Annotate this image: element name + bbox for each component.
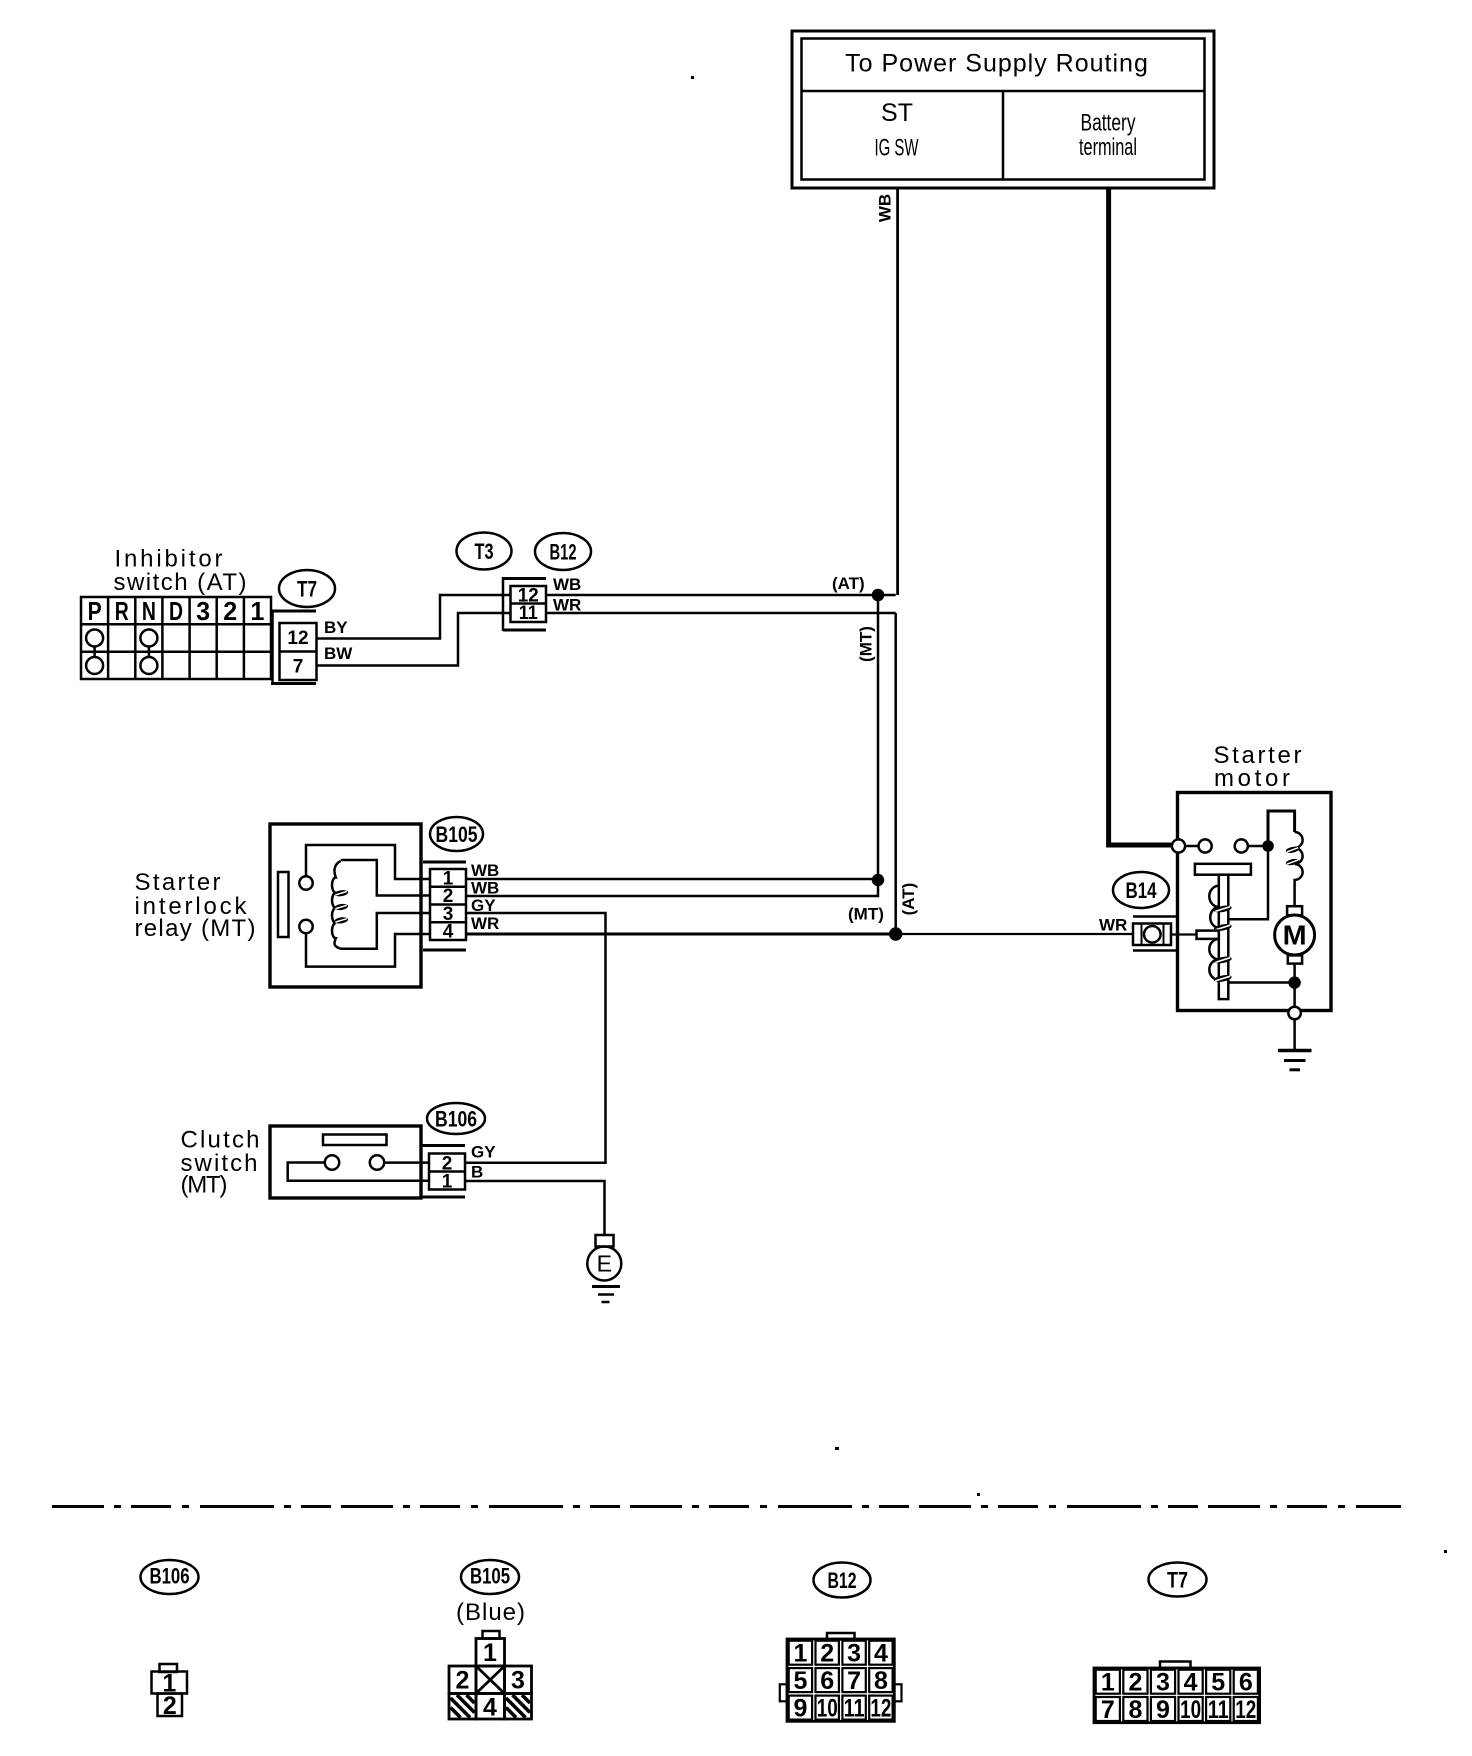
svg-text:WB: WB <box>876 194 895 222</box>
svg-text:2: 2 <box>1128 1669 1142 1697</box>
svg-text:11: 11 <box>844 1695 865 1723</box>
svg-text:Starter: Starter <box>135 869 221 896</box>
svg-text:11: 11 <box>519 603 538 624</box>
svg-text:1: 1 <box>483 1639 497 1667</box>
svg-text:2: 2 <box>456 1667 470 1695</box>
svg-text:WB: WB <box>553 575 581 594</box>
svg-text:B12: B12 <box>828 1568 857 1593</box>
svg-text:8: 8 <box>1128 1696 1142 1724</box>
svg-text:IG SW: IG SW <box>875 135 919 162</box>
svg-text:6: 6 <box>820 1667 834 1695</box>
svg-text:P: P <box>88 596 102 626</box>
svg-text:WR: WR <box>471 914 499 933</box>
svg-text:10: 10 <box>817 1695 838 1723</box>
svg-text:B105: B105 <box>470 1564 510 1589</box>
svg-text:B106: B106 <box>150 1564 190 1589</box>
svg-text:1: 1 <box>793 1640 807 1668</box>
svg-text:(Blue): (Blue) <box>456 1599 526 1626</box>
svg-text:12: 12 <box>287 628 308 649</box>
svg-text:B12: B12 <box>550 540 577 565</box>
svg-text:Battery: Battery <box>1081 110 1136 137</box>
svg-text:1: 1 <box>250 596 264 626</box>
svg-text:switch (AT): switch (AT) <box>114 569 247 596</box>
svg-text:3: 3 <box>847 1640 861 1668</box>
svg-text:2: 2 <box>223 596 237 626</box>
svg-text:B106: B106 <box>435 1107 477 1132</box>
svg-text:4: 4 <box>874 1640 888 1668</box>
svg-text:4: 4 <box>483 1694 497 1722</box>
svg-text:T3: T3 <box>475 539 494 564</box>
svg-text:9: 9 <box>793 1695 807 1723</box>
svg-text:T7: T7 <box>1167 1568 1188 1593</box>
svg-text:BY: BY <box>324 618 348 637</box>
svg-text:(MT): (MT) <box>848 905 884 924</box>
svg-text:2: 2 <box>820 1640 834 1668</box>
svg-text:10: 10 <box>1180 1696 1201 1724</box>
svg-text:BW: BW <box>324 644 353 663</box>
svg-text:ST: ST <box>881 99 913 127</box>
svg-text:12: 12 <box>870 1695 891 1723</box>
svg-text:WR: WR <box>1099 916 1127 935</box>
svg-text:6: 6 <box>1239 1669 1253 1697</box>
svg-text:WB: WB <box>471 861 499 880</box>
svg-text:5: 5 <box>793 1667 807 1695</box>
svg-text:GY: GY <box>471 1143 496 1162</box>
svg-text:2: 2 <box>163 1692 177 1720</box>
svg-text:B: B <box>471 1163 483 1182</box>
svg-text:terminal: terminal <box>1079 134 1137 161</box>
svg-text:T7: T7 <box>297 577 317 602</box>
svg-text:(MT): (MT) <box>181 1172 228 1199</box>
svg-text:4: 4 <box>443 922 454 943</box>
svg-text:WR: WR <box>553 596 581 615</box>
svg-text:1: 1 <box>1101 1669 1115 1697</box>
svg-text:B105: B105 <box>436 822 478 847</box>
svg-text:12: 12 <box>1235 1696 1256 1724</box>
svg-text:7: 7 <box>847 1667 861 1695</box>
svg-text:7: 7 <box>1101 1696 1115 1724</box>
svg-text:11: 11 <box>1208 1696 1229 1724</box>
svg-text:5: 5 <box>1211 1669 1225 1697</box>
svg-text:7: 7 <box>293 657 304 678</box>
svg-text:4: 4 <box>1184 1669 1198 1697</box>
svg-text:(AT): (AT) <box>899 883 918 916</box>
svg-text:N: N <box>142 596 156 626</box>
svg-text:WB: WB <box>471 879 499 898</box>
svg-text:1: 1 <box>442 1172 453 1193</box>
svg-text:8: 8 <box>874 1667 888 1695</box>
svg-text:(MT): (MT) <box>857 626 876 662</box>
svg-text:R: R <box>115 596 129 626</box>
svg-text:(AT): (AT) <box>832 574 865 593</box>
svg-text:GY: GY <box>471 896 496 915</box>
svg-text:3: 3 <box>511 1667 525 1695</box>
svg-text:D: D <box>169 596 183 626</box>
svg-text:3: 3 <box>1156 1669 1170 1697</box>
svg-text:E: E <box>597 1251 612 1277</box>
svg-text:relay (MT): relay (MT) <box>135 915 256 942</box>
svg-text:3: 3 <box>196 596 210 626</box>
svg-text:To Power Supply Routing: To Power Supply Routing <box>845 50 1149 78</box>
svg-text:M: M <box>1283 920 1307 951</box>
svg-text:9: 9 <box>1156 1696 1170 1724</box>
svg-text:B14: B14 <box>1126 878 1158 903</box>
